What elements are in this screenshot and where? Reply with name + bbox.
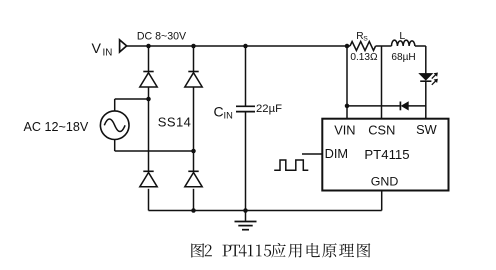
node top rail / VIN line [345,44,350,49]
node top rail / CIN [243,44,248,49]
resistor Rs [350,42,376,51]
wire SW corner [425,46,427,73]
wire bridge branch1 lower [148,189,150,211]
op-amp U1 PT4115 box [322,119,448,191]
svg-text:GND: GND [371,174,399,188]
svg-text:C: C [214,103,224,119]
svg-text:AC 12~18V: AC 12~18V [24,120,89,134]
svg-text:CSN: CSN [368,123,395,138]
diode D4 (bridge bottom-right) [188,170,198,172]
wire freewheel diode left [347,105,400,107]
wire bridge bran2 lower [193,189,195,211]
PWM dimming waveform [274,160,308,170]
svg-text:68µH: 68µH [391,52,415,63]
node bottom rail / CIN [243,208,248,213]
svg-text:IN: IN [224,110,233,120]
AC source V1 [100,111,129,140]
svg-text:V: V [92,41,102,57]
wire AC source bottom to node B [114,139,116,151]
wire top rail [127,45,350,47]
svg-text:22µF: 22µF [256,103,282,115]
wire VIN node vertical [346,46,348,119]
ground [245,211,247,221]
svg-text:0.13Ω: 0.13Ω [350,52,378,63]
wire CIN lower [245,112,247,210]
LED D6 [419,73,433,80]
node VIN / freewheel diode [345,104,350,109]
wire GND pin to bottom rail [381,191,383,211]
svg-text:PT4115: PT4115 [364,147,409,162]
node B (AC input right) [191,149,196,154]
inductor L [392,40,415,46]
wire bridge branch2 middle [193,87,195,171]
wire bridge branch2 upper [193,46,195,72]
title 图2 PT4115应用电原理图 [191,243,370,258]
node top rail / bridge branch1 [146,44,151,49]
wire CIN upper [245,46,247,106]
diode D5 freewheel [399,102,401,111]
wire DIM input [302,153,322,155]
wire LED to SW pin [425,82,427,119]
svg-text:L: L [399,30,405,42]
input terminal VIN (triangle) [120,40,127,52]
diode D3 (bridge bottom-left) [143,170,153,172]
svg-text:S: S [363,35,368,42]
node top rail / bridge branch2 [191,44,196,49]
svg-text:SS14: SS14 [158,114,191,129]
svg-text:DC 8~30V: DC 8~30V [137,30,187,42]
svg-text:IN: IN [103,47,113,58]
capacitor CIN [236,105,255,107]
svg-text:SW: SW [416,122,438,137]
node bottom rail / branch2 [191,208,196,213]
svg-text:DIM: DIM [325,146,348,161]
node A (AC input left) [146,97,151,102]
wire CSN vertical [381,46,383,119]
wire AC source top to node A [114,99,116,111]
svg-text:VIN: VIN [334,122,355,137]
wire bottom rail [149,210,382,212]
wire bridge branch1 upper [148,46,150,72]
diode D1 (bridge top-left) [143,71,153,73]
wire bridge branch1 middle [148,87,150,171]
diode D2 (bridge top-right) [188,71,198,73]
wire freewheel diode right [408,105,425,107]
